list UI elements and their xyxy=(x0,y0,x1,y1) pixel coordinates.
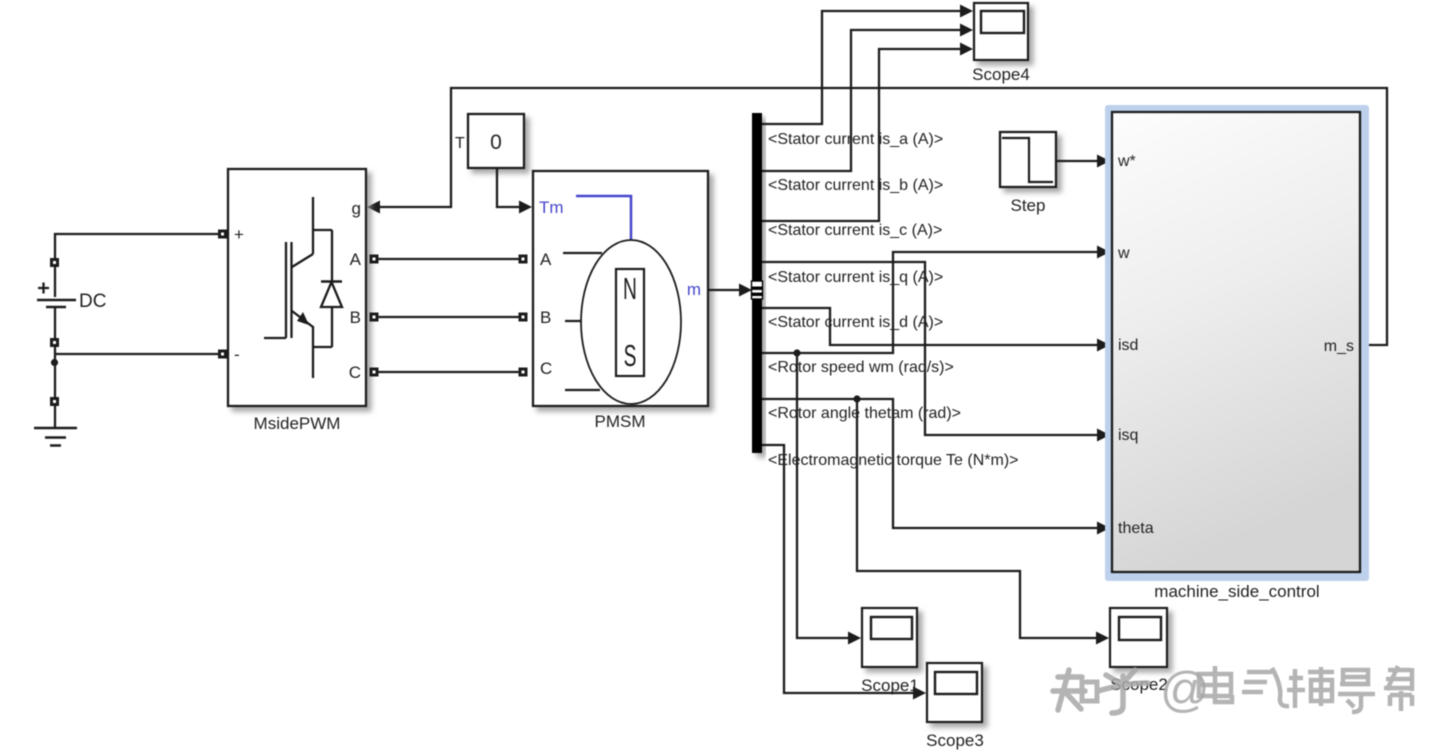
svg-text:-: - xyxy=(234,345,240,364)
wire wm to w xyxy=(762,252,1098,353)
wire phase C xyxy=(378,371,519,373)
port square PMSM B xyxy=(519,313,528,322)
svg-text:0: 0 xyxy=(490,131,502,154)
wire thetam branch to Scope2 xyxy=(857,399,1097,638)
bus input port marker xyxy=(752,281,763,299)
svg-text:isq: isq xyxy=(1118,427,1138,444)
svg-text:S: S xyxy=(624,340,637,374)
svg-text:m_s: m_s xyxy=(1324,338,1354,355)
svg-text:A: A xyxy=(350,250,362,269)
port square battery bottom xyxy=(50,338,59,347)
wire constant to Tm xyxy=(497,168,520,207)
svg-text:@: @ xyxy=(1160,663,1210,717)
scope Scope2 xyxy=(1110,608,1168,694)
svg-text:C: C xyxy=(540,359,552,378)
port square MsidePWM A xyxy=(370,255,379,264)
port square MsidePWM C xyxy=(370,368,379,377)
svg-text:Scope3: Scope3 xyxy=(926,731,984,750)
wire DC minus to MsidePWM xyxy=(55,347,218,398)
wire phase B xyxy=(378,316,519,318)
svg-text:w: w xyxy=(1117,245,1130,262)
junction dot xyxy=(51,359,58,366)
svg-text:T: T xyxy=(455,135,465,152)
svg-text:DC: DC xyxy=(79,291,106,312)
wire is_a to Scope4 xyxy=(762,11,961,124)
svg-text:B: B xyxy=(540,308,551,327)
emitter arrowhead xyxy=(297,312,309,325)
svg-text:Scope4: Scope4 xyxy=(972,65,1030,84)
wire feedback loop m_s to g xyxy=(380,88,1387,345)
svg-text:+: + xyxy=(234,225,244,244)
wire is_c to Scope4 xyxy=(762,49,961,221)
wire wm branch to Scope1 xyxy=(797,353,849,638)
svg-text:m: m xyxy=(687,280,701,299)
svg-text:<Stator current is_q (A)>: <Stator current is_q (A)> xyxy=(768,269,943,286)
bus signal labels xyxy=(768,131,1018,469)
wire DC plus to MsidePWM xyxy=(55,234,218,266)
svg-text:theta: theta xyxy=(1118,520,1154,537)
svg-text:A: A xyxy=(540,250,552,269)
block machine_side_control xyxy=(1105,105,1369,581)
port square MsidePWM plus xyxy=(218,230,227,239)
svg-text:<Stator current is_c (A)>: <Stator current is_c (A)> xyxy=(768,222,942,239)
block PMSM xyxy=(533,171,708,406)
wire is_q to isq xyxy=(762,262,1098,435)
node g input arrowhead xyxy=(367,201,380,214)
scope Scope1 xyxy=(861,608,919,695)
port square MsidePWM minus xyxy=(218,350,227,359)
svg-text:MsidePWM: MsidePWM xyxy=(254,414,341,433)
wire Te to Scope3 xyxy=(762,445,914,693)
port labels MsidePWM xyxy=(234,199,362,382)
svg-text:g: g xyxy=(352,199,361,218)
port square MsidePWM B xyxy=(370,313,379,322)
wire is_b to Scope4 xyxy=(762,30,961,171)
port labels PMSM xyxy=(539,198,701,378)
block MsidePWM xyxy=(228,169,366,406)
constant block 0 xyxy=(468,114,524,168)
ground xyxy=(34,428,77,446)
svg-text:w*: w* xyxy=(1117,153,1136,170)
svg-text:<Electromagnetic torque Te (N*: <Electromagnetic torque Te (N*m)> xyxy=(768,452,1018,469)
node Tm input arrowhead xyxy=(519,201,532,214)
wire is_d to isd xyxy=(762,308,1098,345)
svg-text:<Stator current is_d (A)>: <Stator current is_d (A)> xyxy=(768,314,943,331)
scope Scope4 xyxy=(972,3,1030,84)
svg-text:isd: isd xyxy=(1118,337,1138,354)
junction dot thetam xyxy=(853,395,860,402)
svg-text:C: C xyxy=(349,363,361,382)
watermark at sign xyxy=(1160,663,1210,717)
rotor ellipse xyxy=(581,240,681,404)
svg-text:B: B xyxy=(350,308,361,327)
wire thetam to theta xyxy=(762,399,1098,528)
svg-text:Scope1: Scope1 xyxy=(861,676,919,695)
port square PMSM A xyxy=(519,255,528,264)
port square above ground xyxy=(50,397,59,406)
svg-text:<Stator current is_b (A)>: <Stator current is_b (A)> xyxy=(768,177,943,194)
block Step xyxy=(1000,132,1056,215)
watermark characters dian qi fu dao bang xyxy=(1199,666,1413,712)
port square battery top xyxy=(50,258,59,267)
wire phase A xyxy=(378,258,519,260)
bus selector bar xyxy=(752,113,762,453)
svg-text:<Stator current is_a (A)>: <Stator current is_a (A)> xyxy=(768,131,943,148)
port square PMSM C xyxy=(519,368,528,377)
wire Step to w* xyxy=(1056,160,1097,162)
svg-text:Tm: Tm xyxy=(539,198,564,217)
svg-text:PMSM: PMSM xyxy=(595,412,646,431)
port labels machine_side_control xyxy=(1117,153,1354,537)
battery DC xyxy=(37,266,76,338)
wire to ground xyxy=(54,406,56,428)
watermark zhihu logo xyxy=(1053,670,1148,713)
svg-text:Step: Step xyxy=(1011,196,1046,215)
svg-text:machine_side_control: machine_side_control xyxy=(1154,582,1319,601)
svg-text:<Rotor angle thetam (rad)>: <Rotor angle thetam (rad)> xyxy=(768,405,961,422)
wire Tm blue inside PMSM xyxy=(576,196,631,240)
node bus input arrowhead xyxy=(739,284,752,297)
scope Scope3 xyxy=(926,663,984,750)
junction dot wm xyxy=(793,349,800,356)
svg-text:N: N xyxy=(623,273,637,307)
PMSM winding stubs xyxy=(563,253,602,390)
svg-text:<Rotor speed wm (rad/s)>: <Rotor speed wm (rad/s)> xyxy=(768,359,954,376)
magnet rectangle xyxy=(616,269,644,376)
wire m to bus selector xyxy=(708,289,741,291)
IGBT Q1 inside MsidePWM xyxy=(264,197,342,378)
